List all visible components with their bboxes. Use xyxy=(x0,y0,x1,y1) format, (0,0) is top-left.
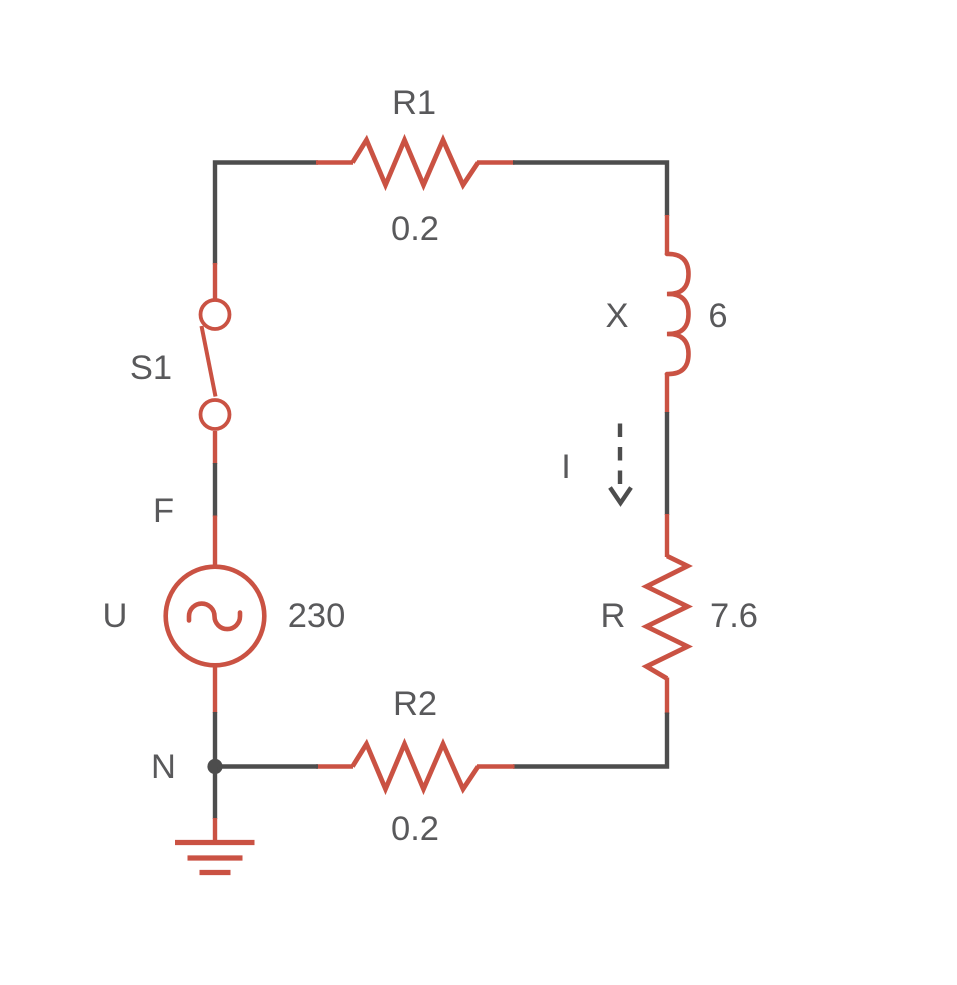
wire switch top red lead xyxy=(213,263,217,299)
wire source bottom red lead xyxy=(213,666,217,713)
resistor R1 xyxy=(353,140,479,185)
svg-text:F: F xyxy=(153,492,174,530)
resistor R2 xyxy=(353,744,479,789)
switch S1 terminal circle top xyxy=(201,300,230,329)
svg-text:6: 6 xyxy=(708,297,727,335)
wire R2 left red lead xyxy=(316,764,353,768)
wire right middle gray segment xyxy=(665,412,669,515)
wire inductor top red lead xyxy=(665,215,669,255)
svg-text:R1: R1 xyxy=(392,84,436,122)
wire top-right gray corner xyxy=(513,163,667,217)
switch S1 terminal circle bottom xyxy=(201,400,230,429)
current arrow I head xyxy=(610,488,631,504)
switch S1 blade xyxy=(202,326,216,397)
wire R2 right red lead xyxy=(477,764,515,768)
wire switch bottom red lead xyxy=(213,431,217,464)
resistor R xyxy=(647,556,688,679)
voltage source sine symbol xyxy=(189,604,240,630)
svg-text:7.6: 7.6 xyxy=(710,597,758,635)
wire bottom-left gray segment xyxy=(215,764,318,768)
svg-text:R2: R2 xyxy=(393,685,437,723)
inductor X xyxy=(667,254,689,374)
wire top gray segment xyxy=(215,163,318,265)
wire source to node gray xyxy=(213,712,217,767)
voltage source U circle xyxy=(166,567,265,666)
wire source top red lead xyxy=(213,516,217,568)
svg-text:I: I xyxy=(561,448,571,486)
wire R1 left red lead xyxy=(316,160,353,164)
svg-text:S1: S1 xyxy=(130,349,172,387)
svg-text:N: N xyxy=(151,748,176,786)
ground bar 3 xyxy=(200,870,231,875)
wire node to ground gray xyxy=(213,767,217,820)
svg-text:230: 230 xyxy=(288,597,346,635)
current arrow I dashed line xyxy=(618,424,622,485)
svg-text:0.2: 0.2 xyxy=(391,810,439,848)
wire bottom-right gray corner xyxy=(513,713,667,767)
wire R bottom red lead xyxy=(665,678,669,715)
svg-text:U: U xyxy=(103,597,128,635)
svg-text:R: R xyxy=(601,597,626,635)
ground bar 2 xyxy=(188,855,243,860)
svg-text:X: X xyxy=(605,297,628,335)
wire F gray segment xyxy=(213,463,217,517)
ground bar 1 xyxy=(175,840,255,845)
svg-text:0.2: 0.2 xyxy=(391,210,439,248)
wire ground red lead xyxy=(213,818,217,841)
wire R1 right red lead xyxy=(477,160,515,164)
wire R top red lead xyxy=(665,514,669,557)
node N junction dot xyxy=(207,759,222,774)
wire inductor bottom red lead xyxy=(665,373,669,413)
